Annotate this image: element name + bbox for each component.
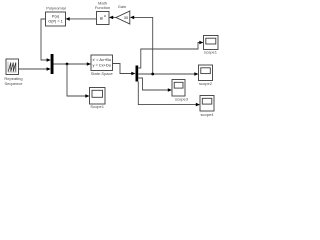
wire Polynomial output to Mux input 1 <box>41 19 47 60</box>
block Polynomial <box>46 12 66 26</box>
svg-text:Gain: Gain <box>118 4 126 9</box>
wire RepeatingSequence to Mux <box>19 68 48 70</box>
wire Demux out4 to scope4 <box>138 82 196 105</box>
mux Mux (black bar) <box>51 54 54 74</box>
svg-text:e: e <box>100 16 103 22</box>
svg-text:scope1: scope1 <box>204 49 218 54</box>
svg-text:Scope1: Scope1 <box>90 104 104 109</box>
svg-text:Polynomial: Polynomial <box>46 5 66 10</box>
block State-Space <box>91 55 113 71</box>
scope scope4 (bottom right) <box>200 96 214 112</box>
svg-text:u: u <box>104 14 106 18</box>
svg-text:scope3: scope3 <box>175 96 189 101</box>
scope scope1 (top right) <box>204 36 219 50</box>
svg-text:x' = Ax+Bu: x' = Ax+Bu <box>93 57 111 62</box>
scope Scope1 (center bottom) <box>90 88 106 105</box>
svg-text:scope2: scope2 <box>199 81 213 86</box>
junction dot branch <box>66 63 69 66</box>
svg-text:scope4: scope4 <box>201 112 215 117</box>
wire Demux out1 to scope1 <box>138 43 200 69</box>
source Repeating Sequence <box>6 59 19 75</box>
wire feedback from Demux out2 up to Gain <box>134 17 153 74</box>
gain Gain triangle pointing left <box>116 11 130 24</box>
junction dot feedback <box>151 73 154 76</box>
wire State-Space output to Demux <box>113 64 133 74</box>
wire Demux out2 to scope2 <box>138 73 195 75</box>
wire Demux out3 to scope3 <box>138 78 168 90</box>
wire Gain output to Math Function <box>113 16 117 18</box>
demux Demux (black bar) <box>136 66 139 82</box>
svg-text:30: 30 <box>124 15 129 20</box>
wire Mux output to State-Space <box>54 63 88 65</box>
scope scope2 (right) <box>199 65 213 81</box>
wire Math Function output to Polynomial <box>69 18 97 20</box>
scope scope3 <box>172 80 185 97</box>
svg-text:State-Space: State-Space <box>91 71 114 76</box>
svg-text:Sequence: Sequence <box>4 81 23 86</box>
block Math Function e^u <box>97 12 110 25</box>
svg-text:O(P) = 1: O(P) = 1 <box>48 20 62 24</box>
svg-text:y = Cx+Du: y = Cx+Du <box>93 63 111 68</box>
svg-text:Function: Function <box>95 5 110 10</box>
wire branch down to Scope1 <box>67 64 86 96</box>
svg-text:P(u): P(u) <box>52 14 60 18</box>
